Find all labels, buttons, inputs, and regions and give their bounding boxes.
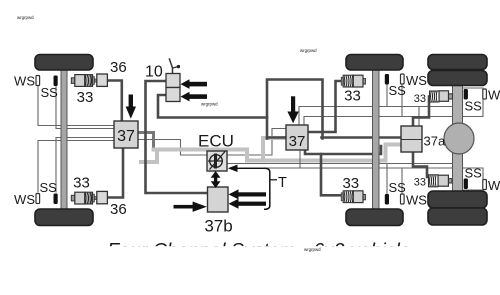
valve 37 front xyxy=(114,121,138,148)
chamber 33 mid-left xyxy=(341,75,365,87)
pipe valve 37 middle to chamber 33 mid-right xyxy=(321,154,342,195)
SS sensor rear-left xyxy=(464,89,468,100)
chamber 33 front-right xyxy=(71,192,97,204)
arrow into 37b right upper xyxy=(229,189,267,199)
tire rear-right outer xyxy=(428,208,487,225)
svg-text:WS: WS xyxy=(14,74,35,89)
WS sensor front-left xyxy=(36,76,40,86)
svg-text:10: 10 xyxy=(145,64,163,81)
arrow into 37b right lower xyxy=(229,199,267,209)
svg-text:36: 36 xyxy=(110,59,127,76)
valve 36 bottom xyxy=(97,191,108,203)
arrow into 37b left xyxy=(174,202,207,212)
svg-text:33: 33 xyxy=(414,93,426,105)
svg-text:37: 37 xyxy=(117,128,135,145)
SS sensor mid-left xyxy=(385,74,389,85)
axle beam rear xyxy=(453,83,463,193)
WS sensor front-right xyxy=(36,194,40,204)
pipe light stub near 37b xyxy=(141,150,157,163)
chamber 33 front-left xyxy=(71,75,97,87)
wire WS sensors bottom to ECU xyxy=(240,168,483,179)
svg-text:SS: SS xyxy=(465,99,483,114)
axle beam front xyxy=(61,67,67,211)
wire WS front-right to valve 37 front xyxy=(38,141,114,193)
valve 37 middle xyxy=(286,125,308,150)
chamber 33 mid-right xyxy=(341,191,365,203)
svg-text:WS: WS xyxy=(406,73,427,88)
arrow thin into ECU xyxy=(228,165,266,172)
valve 37b xyxy=(208,187,229,212)
svg-text:SS: SS xyxy=(465,166,483,181)
axle beam middle xyxy=(373,67,380,211)
pipe valve 37 middle to chamber 33 mid-left xyxy=(308,81,341,132)
svg-text:33: 33 xyxy=(77,89,94,106)
pipe valve 36 top to valve 37 front xyxy=(107,81,121,122)
svg-text:wrgrpwd: wrgrpwd xyxy=(17,15,34,20)
SS sensor front-right xyxy=(54,194,58,205)
SS sensor front-left xyxy=(54,76,58,87)
arrow down into 37 middle xyxy=(287,96,298,123)
SS sensor rear-right xyxy=(464,179,468,190)
svg-text:WS: WS xyxy=(406,193,427,208)
chamber 33 rear-left xyxy=(430,91,453,102)
wire drop into valve 37a xyxy=(418,107,420,126)
wire WS mid-left drop xyxy=(401,84,403,117)
SS sensor mid-right xyxy=(385,194,389,205)
tire mid-left xyxy=(346,55,403,71)
svg-text:WS: WS xyxy=(14,192,35,207)
svg-text:SS: SS xyxy=(40,180,58,195)
wire valve 37 front to ECU xyxy=(138,140,207,156)
WS sensor mid-left xyxy=(401,74,405,84)
arrow down into 37 front xyxy=(126,95,136,119)
tire mid-right xyxy=(346,209,403,226)
svg-text:SS: SS xyxy=(389,83,407,98)
wire WS mid-right drop xyxy=(401,168,403,194)
chamber 33 rear-right xyxy=(429,175,453,187)
svg-text:wrgrpwd: wrgrpwd xyxy=(300,48,317,53)
wire ECU to SS sensors bottom xyxy=(227,164,483,191)
svg-text:SS: SS xyxy=(41,85,59,100)
ECU lamp box xyxy=(207,151,227,171)
tire front-right xyxy=(35,209,93,226)
caption (clipped) xyxy=(0,239,500,290)
tire rear-left inner xyxy=(428,71,487,86)
wire SS mid-left drop xyxy=(386,84,388,107)
wire SS front-right to valve 37 front xyxy=(56,138,114,193)
svg-text:36: 36 xyxy=(110,201,127,218)
svg-text:wrgrpwd: wrgrpwd xyxy=(304,247,321,252)
pipe valve 37a to chamber 33 rear-right xyxy=(413,152,427,177)
wire valve 37 middle drop to bottom wire run xyxy=(299,150,301,167)
svg-text:37a: 37a xyxy=(424,134,446,149)
WS sensor mid-right xyxy=(401,194,405,204)
pipe supply from valve 10 xyxy=(158,95,267,118)
arrow into valve 10 lower xyxy=(181,92,208,102)
pipe supply to valve 37a xyxy=(267,136,401,139)
pipe valve 37a to chamber 33 rear-left xyxy=(413,97,429,127)
pipe valve 36 bottom to valve 37 front xyxy=(107,148,123,198)
svg-text:wrgrpwd: wrgrpwd xyxy=(201,102,218,107)
pipe valve 37 front delivery (light) xyxy=(138,133,154,150)
svg-text:WS: WS xyxy=(488,178,500,193)
foot valve 10 xyxy=(166,58,180,101)
tire rear-right inner xyxy=(428,191,487,208)
svg-text:33: 33 xyxy=(344,88,361,105)
wire WS sensors top to valve 37 middle xyxy=(304,99,483,125)
WS sensor rear-right xyxy=(483,180,487,190)
wire SS sensors top to valve 37 middle xyxy=(299,88,483,125)
wire SS front-left to valve 37 front xyxy=(56,86,114,129)
T bracket xyxy=(264,168,277,209)
valve 36 top xyxy=(97,74,108,86)
wire SS mid-right drop xyxy=(386,164,388,195)
valve 37a xyxy=(401,126,422,152)
wire WS front-left to valve 37 front xyxy=(38,86,114,126)
tire front-left xyxy=(35,55,93,71)
svg-text:33: 33 xyxy=(414,177,426,189)
WS sensor rear-left xyxy=(483,89,487,99)
svg-text:T: T xyxy=(278,175,287,191)
svg-text:WS: WS xyxy=(488,88,500,103)
pipe valve 37 middle to valve 37a xyxy=(305,146,381,154)
pipe light rear delivery run xyxy=(154,145,401,161)
tire rear-left outer xyxy=(428,55,487,70)
double arrow ECU-37b xyxy=(211,171,221,188)
svg-text:37b: 37b xyxy=(204,217,232,236)
svg-text:33: 33 xyxy=(73,175,90,192)
pipe valve 10 to valve 37b xyxy=(146,81,208,193)
svg-text:37: 37 xyxy=(289,133,306,150)
pipe supply loop rectangle xyxy=(267,80,323,139)
wire ECU to valve 37 middle xyxy=(227,129,286,156)
pipe light riser to valve 37 middle xyxy=(263,138,286,161)
svg-text:SS: SS xyxy=(389,180,407,195)
arrow into valve 10 upper xyxy=(181,79,208,89)
svg-text:33: 33 xyxy=(342,175,359,192)
differential xyxy=(444,123,474,154)
svg-text:ECU: ECU xyxy=(198,132,234,151)
